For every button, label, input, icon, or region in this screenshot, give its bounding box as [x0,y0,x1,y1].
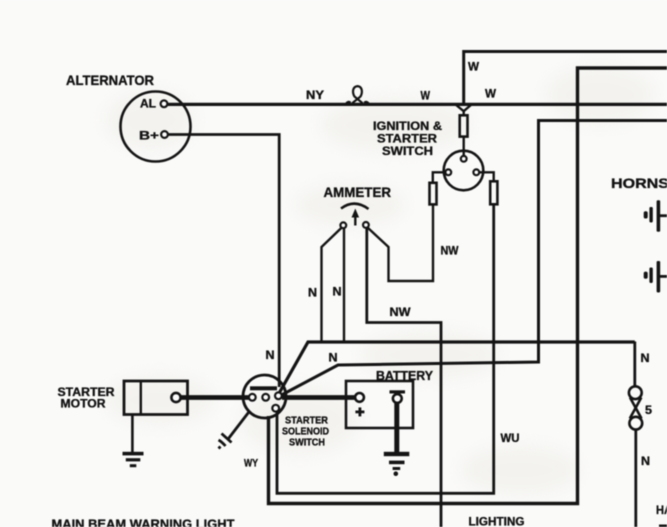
starter motor label [58,385,115,411]
svg-text:SWITCH: SWITCH [289,437,325,449]
ammeter right terminal [363,222,369,228]
ignition switch top pin [461,156,467,162]
fuse (ignition feed) [460,115,468,136]
svg-text:W: W [485,87,497,101]
wire NW to lighting: ammeter right terminal down, right, down to bottom edge [367,228,441,527]
ammeter left terminal [340,222,346,228]
wire horn feed: diagonal from solenoid, shallow rise, vertical up, right to edge [282,121,667,396]
ground (starter motor) [123,452,144,467]
svg-text:B+: B+ [139,129,159,143]
svg-text:LIGHTING: LIGHTING [469,515,525,527]
ignition & starter switch label [373,119,442,158]
svg-text:AL: AL [140,97,156,111]
starter motor terminal [171,393,180,402]
svg-text:N: N [641,454,650,468]
inline snap connector loop on NY wire [346,86,369,104]
wire from junction to fuse [463,111,465,117]
svg-text:W: W [468,60,480,74]
horn symbol 2 [644,261,667,293]
heavy cable solenoid to battery + [282,395,355,400]
solenoid pin right [275,392,282,399]
horn symbol 1 [644,200,667,232]
svg-text:NW: NW [390,305,412,319]
alternator circle [121,92,191,162]
wire NY/W main horizontal from AL to right edge [168,103,667,106]
wire NW: fuse down, left along y281, up diagonal to ammeter right terminal [368,204,434,281]
starter solenoid switch circle [243,375,286,418]
svg-text:WY: WY [244,458,259,470]
svg-text:ALTERNATOR: ALTERNATOR [66,72,154,88]
svg-text:N: N [641,351,650,365]
fuse (right, WU wire) [490,181,497,204]
battery + terminal [355,393,364,402]
svg-text:HORNS: HORNS [611,175,667,191]
wire NW: switch left pin to left fuse [433,172,446,183]
wire fuse to switch top terminal [463,137,465,156]
wire WY: diagonal from solenoid to earth point [229,411,251,439]
wire WU: switch right pin to right fuse [479,172,494,181]
battery - bar [390,390,406,393]
wire W right loop: from top edge down right side, bottom, up to solenoid underside [269,68,667,504]
starter motor divider [140,381,142,415]
solenoid pin left [249,394,256,401]
fuse (left, NW wire) [430,183,437,205]
svg-text:AMMETER: AMMETER [324,185,392,200]
starter motor body [124,381,188,415]
alternator terminal AL pin [161,100,168,107]
svg-text:N: N [329,351,338,365]
ground (battery) [384,452,410,476]
wire N fuse drop: vertical from rail to fuse [633,342,636,387]
wire N1: ammeter left terminal diagonal + vertical down to main N rail [322,228,342,342]
ignition switch circle [444,151,484,191]
ammeter dial arc [341,204,369,209]
wire N main rail: diagonal from solenoid then horizontal to fuse [280,342,635,393]
solenoid internal bar [250,386,277,390]
wire N2: ammeter left terminal straight down to main N rail [343,228,345,341]
solenoid pin bottom [272,405,279,412]
svg-text:HA: HA [656,503,667,517]
wire W: vertical up from junction and top horizontal to right edge [464,52,667,105]
battery - terminal [393,394,402,403]
svg-text:NW: NW [441,244,460,258]
starter motor earth wire [131,415,134,453]
svg-text:5: 5 [645,403,652,417]
svg-text:WU: WU [501,431,520,445]
ignition switch left pin [445,169,451,175]
starter solenoid switch label [282,415,329,449]
junction V splice at ignition feed [456,105,472,112]
heavy battery earth cable [394,403,399,453]
svg-text:N: N [308,286,317,300]
heavy cable starter motor to solenoid [181,395,250,400]
wire N below fuse to bottom edge [634,429,637,527]
svg-text:SWITCH: SWITCH [382,144,433,158]
solenoid pin middle [262,394,269,401]
svg-text:N: N [333,285,342,299]
alternator terminal B+ pin [161,131,168,138]
battery + sign [355,407,364,416]
ignition switch right pin [473,169,479,175]
ammeter needle arrow [354,215,356,226]
earth-by-cable symbol on WY wire [219,434,232,449]
svg-text:MOTOR: MOTOR [61,397,106,411]
svg-text:NY: NY [306,88,324,102]
in-line fuse F5 [629,386,642,429]
battery box [346,381,413,428]
svg-text:N: N [266,348,275,362]
svg-text:W: W [421,89,431,103]
svg-text:MAIN BEAM WARNING LIGHT: MAIN BEAM WARNING LIGHT [52,517,235,527]
wire B+: from alternator right then down into solenoid bar [168,135,279,388]
clipped text fragment bottom right [659,525,667,527]
wire WU: down to y491, left, up to solenoid bottom pin [277,204,494,493]
